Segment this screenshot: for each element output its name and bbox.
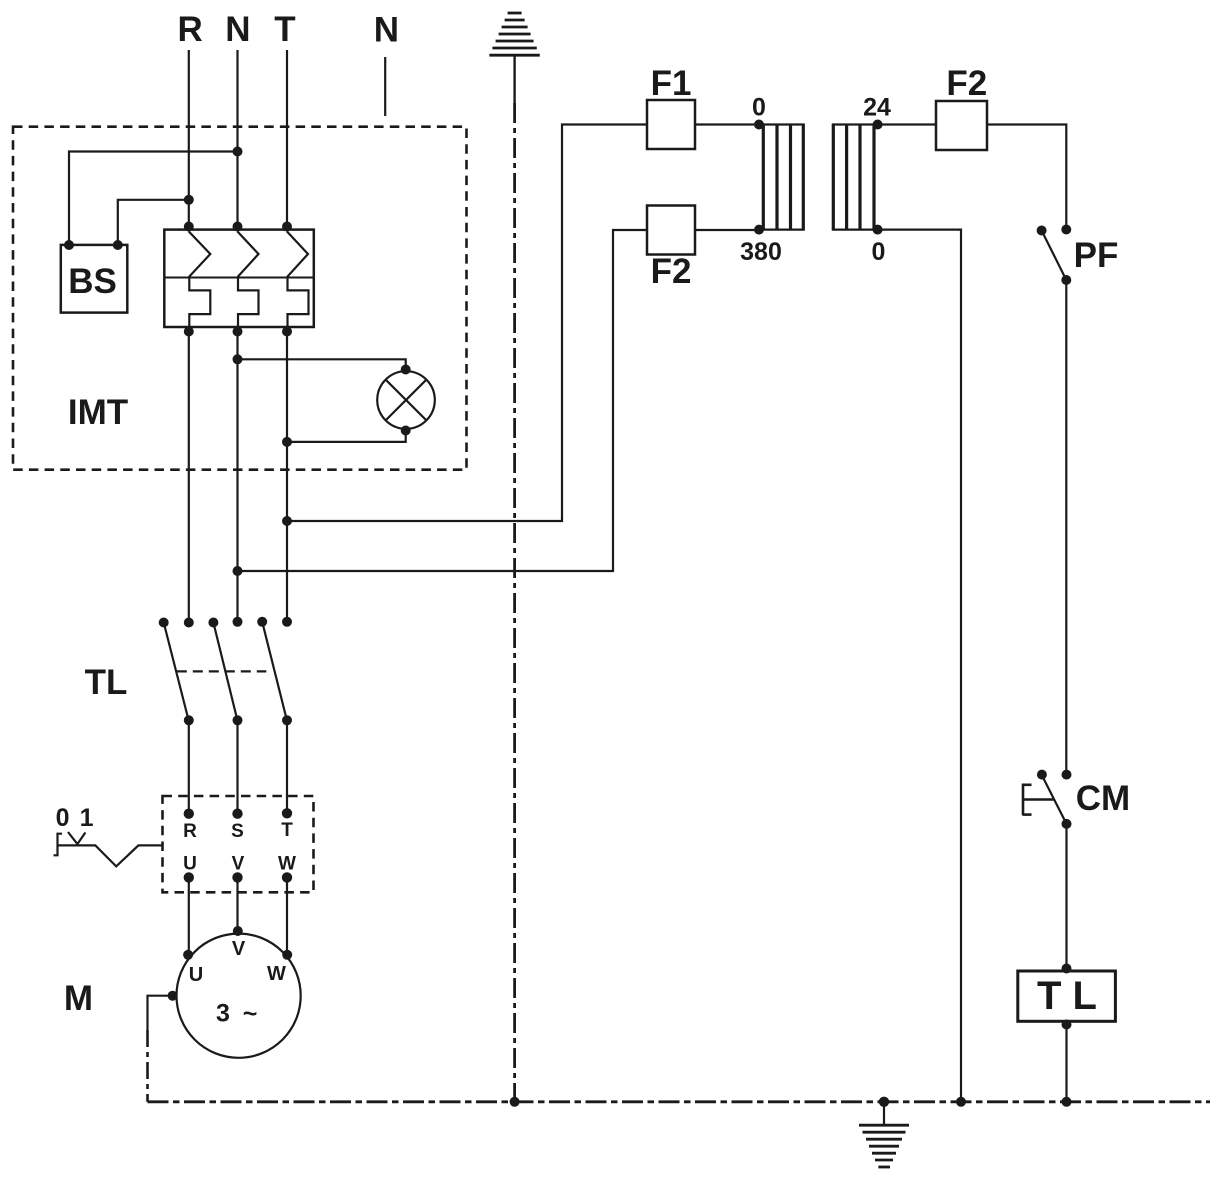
svg-text:W: W bbox=[267, 963, 286, 985]
svg-text:F1: F1 bbox=[651, 64, 692, 103]
svg-text:F2: F2 bbox=[651, 252, 692, 291]
svg-text:S: S bbox=[231, 821, 244, 842]
svg-text:V: V bbox=[232, 854, 245, 875]
svg-text:CM: CM bbox=[1076, 779, 1130, 818]
svg-text:PF: PF bbox=[1074, 236, 1119, 275]
svg-text:W: W bbox=[278, 854, 296, 875]
svg-text:0: 0 bbox=[56, 804, 70, 832]
svg-text:0: 0 bbox=[752, 94, 766, 122]
svg-text:N: N bbox=[374, 11, 399, 50]
svg-text:IMT: IMT bbox=[68, 393, 128, 432]
svg-text:T: T bbox=[281, 820, 293, 841]
svg-text:R: R bbox=[178, 10, 203, 49]
svg-text:1: 1 bbox=[80, 804, 94, 832]
svg-text:0: 0 bbox=[872, 238, 886, 266]
svg-text:F2: F2 bbox=[946, 64, 987, 103]
svg-text:380: 380 bbox=[740, 238, 782, 266]
svg-text:TL: TL bbox=[85, 663, 128, 702]
svg-text:24: 24 bbox=[863, 94, 891, 122]
svg-text:T L: T L bbox=[1037, 974, 1097, 1018]
svg-text:V: V bbox=[232, 938, 246, 960]
svg-text:U: U bbox=[189, 964, 203, 986]
svg-text:~: ~ bbox=[243, 1000, 258, 1028]
svg-text:3: 3 bbox=[216, 1000, 230, 1028]
svg-text:R: R bbox=[183, 821, 197, 842]
svg-text:BS: BS bbox=[68, 262, 117, 301]
svg-text:T: T bbox=[274, 10, 295, 49]
svg-text:U: U bbox=[183, 854, 197, 875]
svg-text:N: N bbox=[225, 10, 250, 49]
svg-text:M: M bbox=[64, 979, 93, 1018]
